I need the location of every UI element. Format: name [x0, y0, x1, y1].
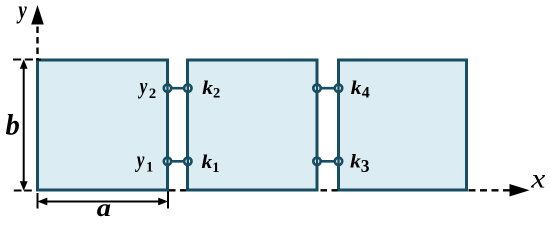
pin joint on M2 right upper [313, 85, 320, 92]
label a [97, 194, 111, 222]
mass block M1 [38, 60, 168, 190]
edge through pin M1 lower [166, 155, 168, 169]
pin joint on M1 upper [164, 85, 171, 92]
label k3 [350, 151, 370, 176]
label k1 [202, 152, 220, 176]
svg-text:2: 2 [213, 85, 220, 101]
dimension a tick right [167, 192, 169, 209]
svg-text:y: y [16, 0, 28, 23]
svg-text:1: 1 [146, 159, 153, 175]
svg-text:2: 2 [149, 86, 156, 102]
dimension a arrow right [158, 198, 168, 206]
mass block M2 [188, 60, 318, 190]
svg-text:4: 4 [362, 85, 370, 102]
pin joint on M2 right lower [313, 158, 320, 165]
label y1 [134, 148, 153, 175]
x axis dashed segment right [469, 189, 512, 191]
y axis arrowhead [31, 5, 44, 25]
dimension b arrow down [20, 181, 28, 191]
pin joint on M2 left lower [184, 158, 191, 165]
dimension b extension bottom [14, 190, 32, 192]
svg-text:b: b [6, 109, 20, 141]
edge through pin M3 lower [337, 155, 339, 169]
svg-text:x: x [530, 165, 545, 195]
label k2 [202, 78, 220, 102]
svg-text:3: 3 [361, 156, 370, 176]
pin joint on M1 lower [164, 158, 171, 165]
dimension a arrow left [37, 198, 47, 206]
label k4 [351, 78, 370, 102]
label y2 [137, 74, 156, 101]
svg-text:k: k [202, 78, 214, 99]
edge through pin M2 lower [187, 155, 189, 169]
dimension a tick left [37, 193, 39, 209]
edge through pin M3 upper [337, 82, 339, 96]
svg-text:1: 1 [212, 160, 219, 176]
dimension b arrow up [20, 59, 28, 69]
x axis arrowhead [510, 184, 530, 197]
svg-text:k: k [351, 78, 363, 99]
link rod k4 [317, 87, 339, 90]
link rod k3 [317, 160, 339, 163]
y axis label [16, 0, 28, 23]
link rod k1 [168, 160, 188, 163]
edge through pin M2 upper [187, 82, 189, 96]
pin joint on M2 left upper [184, 85, 191, 92]
dimension a line [40, 201, 166, 203]
pin joint on M3 lower [335, 158, 342, 165]
dimension b line [23, 65, 25, 185]
y axis dashed line [36, 27, 38, 61]
svg-text:k: k [202, 152, 214, 173]
label b [6, 109, 20, 141]
dimension b extension top [13, 59, 41, 61]
edge through pin M2 right upper [316, 82, 318, 96]
mass block M3 [339, 60, 467, 190]
x axis label [530, 165, 545, 195]
pin joint on M3 upper [335, 85, 342, 92]
x axis dashed segment gap1 [169, 189, 186, 191]
x axis dashed segment gap2 [321, 189, 338, 191]
svg-text:a: a [97, 194, 111, 222]
link rod k2 [168, 87, 188, 90]
edge through pin M1 upper [166, 82, 168, 96]
edge through pin M2 right lower [316, 155, 318, 169]
